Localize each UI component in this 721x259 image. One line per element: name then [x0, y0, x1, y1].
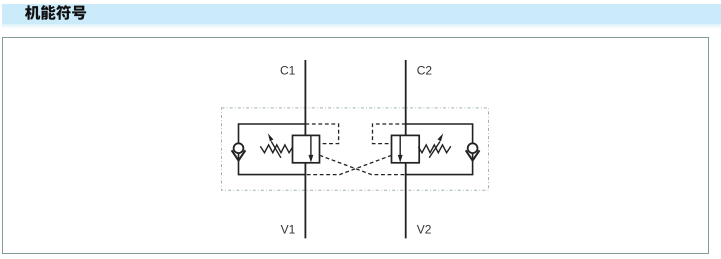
svg-text:V1: V1	[281, 223, 296, 237]
svg-text:C1: C1	[280, 63, 296, 77]
svg-text:C2: C2	[417, 63, 433, 77]
svg-text:V2: V2	[417, 223, 432, 237]
